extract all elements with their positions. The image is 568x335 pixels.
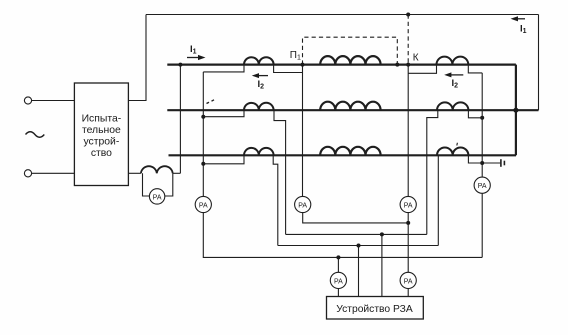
wire TA0 secondary loop: [143, 173, 150, 196]
arrow I1 top left: [187, 55, 206, 60]
phase row B bus: [167, 109, 538, 111]
svg-text:К: К: [413, 53, 419, 64]
ammeter PA1: [149, 189, 164, 204]
AC source tilde: [26, 132, 45, 138]
wire TA3 right lead: [274, 110, 286, 234]
node right riser ground: [480, 161, 484, 165]
transformer T primary winding row B middle: [320, 102, 380, 111]
ammeter PA5: [474, 177, 490, 193]
wire PA5 down to bus L4: [481, 193, 483, 257]
svg-text:PA: PA: [478, 183, 487, 190]
wire TA3 left lead: [203, 110, 244, 117]
transformer TA0 primary winding: [141, 166, 173, 173]
wire left secondary riser: [202, 72, 204, 196]
test device box (Испытательное устройство): [74, 83, 128, 186]
polarity marks near row B start: [207, 100, 215, 104]
wire TA4 right lead: [468, 110, 482, 118]
wire TA5 right lead: [273, 155, 278, 245]
node L1: [406, 221, 410, 225]
transformer T primary winding row C middle: [320, 147, 380, 156]
wire TA2 left lead: [408, 65, 436, 74]
wire TA2 right lead: [468, 65, 482, 73]
svg-text:PA: PA: [153, 194, 162, 201]
wire PA4 to bus L4: [203, 213, 482, 258]
svg-text:I1: I1: [520, 24, 527, 36]
svg-text:Устройство РЗА: Устройство РЗА: [336, 304, 413, 315]
ammeter PA4: [195, 196, 211, 212]
terminal X2: [24, 170, 31, 177]
ammeter PA6: [400, 272, 416, 288]
bus L3 row C secondary link: [278, 245, 439, 247]
node row A riser: [178, 63, 182, 67]
svg-text:устрой-: устрой-: [83, 136, 119, 147]
small mark above row C right coil: [456, 143, 459, 146]
wire TA6 right lead to ground: [468, 155, 500, 163]
wire PA2 to bus L1: [303, 213, 409, 223]
phase row A bus: [167, 63, 516, 65]
wire TA5 left lead: [203, 155, 244, 164]
transformer TA3 secondary winding row B left: [244, 103, 274, 110]
phase row C bus: [169, 154, 517, 156]
node series link row B: [513, 108, 518, 113]
node L4: [336, 255, 340, 259]
svg-text:PA: PA: [199, 203, 208, 210]
node right riser row B: [480, 116, 484, 120]
wire P1 node to ammeter PA2: [302, 65, 304, 197]
bus L2 row B secondary link: [286, 233, 427, 235]
arrow I2 row A left: [252, 73, 268, 78]
svg-text:I1: I1: [190, 44, 197, 56]
top bus wire: [146, 14, 539, 16]
transformer TA1 secondary winding row A left: [244, 57, 274, 64]
svg-text:PA: PA: [404, 203, 413, 210]
svg-text:PA: PA: [404, 278, 413, 285]
wire PA6 to relay box: [407, 289, 409, 297]
transformer TA6 secondary winding row C right: [437, 147, 468, 155]
node L2: [380, 232, 384, 236]
wire right drop from top bus: [538, 15, 540, 111]
node row B left lead: [201, 115, 205, 119]
svg-text:I2: I2: [452, 78, 459, 90]
wire right secondary riser: [481, 73, 483, 177]
wire L3 tap to relay box: [358, 246, 360, 297]
wire PA7 to relay box: [337, 289, 339, 297]
wire right series link A-B-C: [515, 65, 517, 156]
dashed marker box P1-K: [303, 15, 409, 65]
node row C left lead: [201, 162, 205, 166]
svg-text:PA: PA: [298, 203, 307, 210]
terminal X1: [24, 97, 31, 104]
ammeter PA2: [295, 196, 311, 212]
svg-text:PA: PA: [334, 278, 343, 285]
node dashed box right: [395, 63, 399, 67]
transformer TA4 secondary winding row B right: [437, 102, 468, 110]
node K: [406, 63, 410, 67]
wire TA1 right lead: [274, 65, 303, 73]
relay device box (Устройство РЗА): [327, 297, 424, 320]
transformer TA5 secondary winding row C left: [244, 148, 274, 155]
wire TA0 to phase A riser: [173, 172, 181, 174]
svg-text:Испыта-: Испыта-: [82, 114, 122, 125]
wire L2 tap to relay box: [381, 234, 383, 296]
wire K node to ammeter PA3: [407, 65, 409, 197]
ground symbol: [501, 159, 505, 167]
wire TA4 left lead: [427, 110, 438, 234]
svg-text:П1: П1: [290, 50, 301, 62]
wire X1 to test device: [32, 100, 75, 102]
wire PA3 down through L1 to ammeter PA6: [407, 213, 409, 273]
wire X2 to test device: [32, 172, 75, 174]
wire TA1 left lead: [203, 65, 244, 72]
svg-text:ство: ство: [91, 148, 112, 159]
transformer TA2 secondary winding row A right: [437, 57, 469, 65]
node top bus K drop: [406, 13, 410, 17]
svg-text:I2: I2: [258, 79, 265, 91]
wire test device output top: [128, 15, 146, 101]
wire riser to row A: [179, 65, 181, 174]
node P1: [301, 63, 305, 67]
node L3: [357, 244, 361, 248]
wire test device output bottom: [128, 172, 141, 174]
transformer T primary winding row A middle: [320, 56, 380, 65]
ammeter PA7: [330, 272, 346, 288]
wire L4 tap to ammeter PA7: [337, 257, 339, 272]
wire TA6 left lead: [437, 155, 439, 245]
svg-text:тельное: тельное: [82, 125, 121, 136]
arrow I1 top right: [511, 16, 526, 21]
arrow I2 row A right: [444, 72, 463, 77]
ammeter PA3: [400, 196, 416, 212]
